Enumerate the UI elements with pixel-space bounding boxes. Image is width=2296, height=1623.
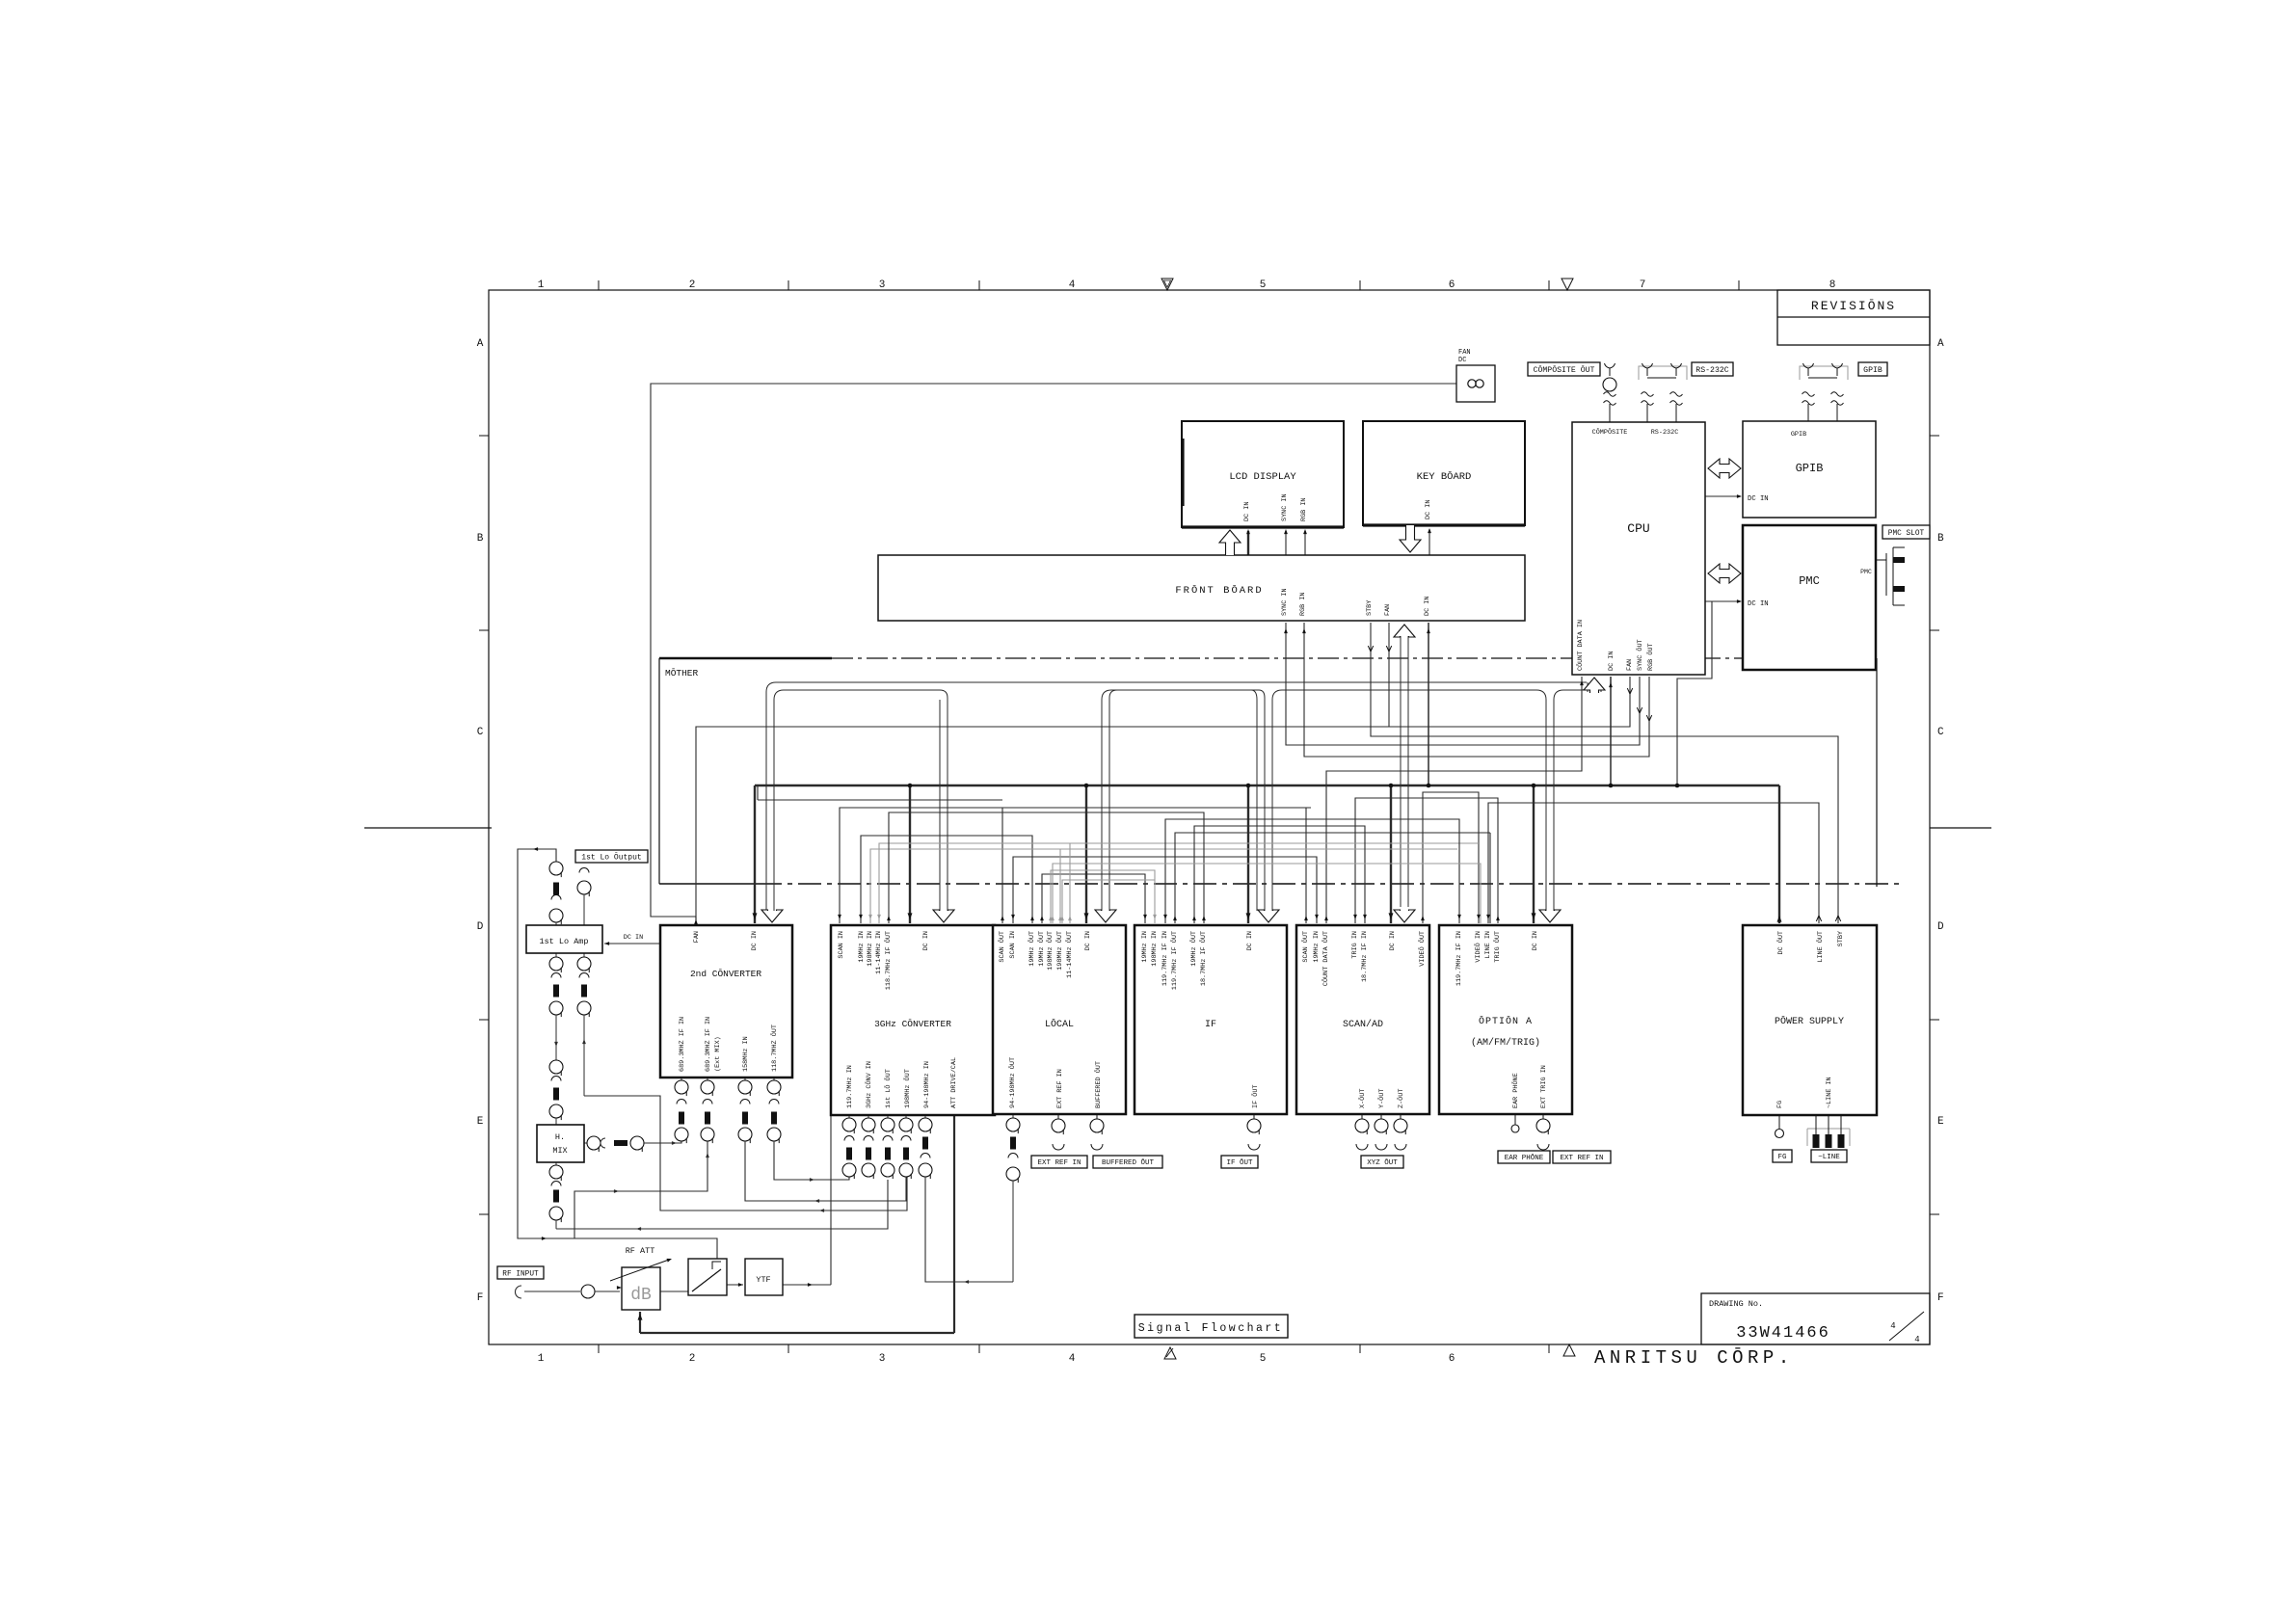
pipe branch OPTION A <box>1554 682 1590 911</box>
wire VIDEO net <box>1423 792 1479 923</box>
svg-text:119.7MHz IF ŌUT: 119.7MHz IF ŌUT <box>1170 931 1179 990</box>
POWER SUPPLY arrows <box>1777 916 1782 922</box>
svg-text:IF: IF <box>1205 1020 1216 1030</box>
pipe branch LOCAL <box>1102 690 1265 911</box>
svg-text:PMC: PMC <box>1860 569 1872 575</box>
wire DC branch <box>909 785 911 923</box>
svg-text:GPIB: GPIB <box>1863 366 1882 375</box>
svg-text:1st Lo Amp: 1st Lo Amp <box>539 937 588 946</box>
PMC slot connector <box>1876 559 1886 561</box>
svg-text:158MHz IN: 158MHz IN <box>742 1036 750 1072</box>
svg-text:11-14MHz IN: 11-14MHz IN <box>875 931 883 974</box>
svg-text:DC IN: DC IN <box>1246 931 1254 950</box>
svg-text:19MHz ŌUT: 19MHz ŌUT <box>1028 931 1036 967</box>
RF path arrows <box>617 1286 622 1290</box>
chain below amp right <box>583 953 585 958</box>
svg-text:1st LŌ ŌUT: 1st LŌ ŌUT <box>884 1069 893 1108</box>
svg-text:3GHz CŌNV IN: 3GHz CŌNV IN <box>865 1061 873 1108</box>
wire DC IN to 1st Lo Amp <box>604 943 660 945</box>
wire SCAN bus A <box>840 808 1311 923</box>
svg-text:RF ATT: RF ATT <box>626 1246 655 1256</box>
svg-text:CŌUNT DATA ŌUT: CŌUNT DATA ŌUT <box>1322 931 1330 986</box>
svg-text:118.7MHZ ŌUT: 118.7MHZ ŌUT <box>770 1024 779 1072</box>
svg-text:4: 4 <box>1890 1321 1895 1331</box>
3GHz CONVERTER board <box>831 925 995 1115</box>
wire DC branch <box>1247 785 1249 923</box>
chains under 2nd CONVERTER <box>681 1078 682 1080</box>
svg-text:VIDEŌ ŌUT: VIDEŌ ŌUT <box>1418 931 1427 967</box>
svg-text:EAR PHŌNE: EAR PHŌNE <box>1505 1154 1544 1162</box>
svg-text:FAN: FAN <box>1458 349 1471 357</box>
wire DC branch <box>1533 785 1535 923</box>
wire FAN net <box>696 677 1630 923</box>
bottom connector feet <box>1057 1114 1059 1119</box>
wire SCAN bus B <box>1013 857 1317 923</box>
wire IF inputs gray <box>1144 873 1146 875</box>
wire DC branch <box>1085 785 1087 923</box>
svg-text:FG: FG <box>1777 1154 1787 1161</box>
svg-text:198MHz ŌUT: 198MHz ŌUT <box>1046 931 1055 971</box>
wire deco stub <box>758 799 1002 801</box>
svg-text:F: F <box>1937 1292 1944 1304</box>
wire YTF riser <box>830 1115 832 1285</box>
RS-232C connector <box>1639 366 1687 380</box>
svg-text:CŌMPŌSITE ŌUT: CŌMPŌSITE ŌUT <box>1534 364 1595 375</box>
svg-text:2: 2 <box>689 279 696 291</box>
1st Lo Amp box <box>526 925 602 953</box>
svg-text:LINE IN: LINE IN <box>1484 931 1492 959</box>
CPU GPIB data arrows <box>1708 459 1741 478</box>
dB attenuator box <box>622 1267 660 1310</box>
svg-text:198MHz IN: 198MHz IN <box>1151 931 1159 967</box>
svg-text:5: 5 <box>1260 1353 1267 1365</box>
chain 1st Lo Output left <box>549 862 563 875</box>
svg-text:198MHz IN: 198MHz IN <box>867 931 874 967</box>
svg-text:SCAN ŌUT: SCAN ŌUT <box>1301 931 1310 963</box>
wire 19MHz A <box>861 836 1032 923</box>
svg-text:STBY: STBY <box>1366 600 1374 616</box>
OPTION A board <box>1439 925 1572 1114</box>
revision mark top 2 <box>1562 279 1573 290</box>
wire 118.7 out to 119.7 in <box>774 1141 849 1180</box>
pipe branch 3GHz outer <box>939 700 941 911</box>
wire DC branch FRONT BOARD <box>1428 623 1429 785</box>
FG stub <box>1778 1115 1780 1129</box>
svg-text:PMC SLOT: PMC SLOT <box>1888 530 1925 538</box>
wire 18.7 IF net <box>1194 826 1365 923</box>
chain below amp left <box>555 953 557 958</box>
svg-text:CPU: CPU <box>1627 521 1649 536</box>
1st Lo loop arrows <box>533 847 538 851</box>
LOCAL arrows <box>1001 916 1004 920</box>
svg-text:MŌTHER: MŌTHER <box>665 668 699 678</box>
pipe main horizontal <box>766 682 1587 911</box>
svg-text:B: B <box>477 533 484 545</box>
svg-text:Signal Flowchart: Signal Flowchart <box>1138 1322 1283 1335</box>
svg-text:BUFFERED ŌUT: BUFFERED ŌUT <box>1094 1061 1103 1108</box>
svg-text:LCD DISPLAY: LCD DISPLAY <box>1229 471 1296 483</box>
svg-text:REVISIŌNS: REVISIŌNS <box>1811 299 1896 313</box>
wire 198MHz B gray <box>1051 870 1155 923</box>
bottom labels <box>1031 1156 1087 1168</box>
SCAN AD arrows <box>1304 916 1308 920</box>
svg-text:FG: FG <box>1776 1101 1784 1108</box>
svg-text:LINE ŌUT: LINE ŌUT <box>1816 931 1825 963</box>
wires RS232 to CPU <box>1646 404 1648 422</box>
svg-text:DC IN: DC IN <box>1608 652 1615 671</box>
svg-text:~LINE: ~LINE <box>1818 1154 1840 1161</box>
svg-text:DC IN: DC IN <box>1084 931 1092 950</box>
wire 119.7 IF to OPTION A <box>1165 819 1459 923</box>
IF arrows <box>1143 915 1147 919</box>
svg-text:C: C <box>477 727 484 738</box>
LINE plug <box>1807 1129 1850 1146</box>
svg-text:CŌMPŌSITE: CŌMPŌSITE <box>1592 428 1628 437</box>
svg-text:6: 6 <box>1449 279 1455 291</box>
svg-text:5: 5 <box>1260 279 1267 291</box>
YTF box <box>745 1259 783 1295</box>
wire CPU composite <box>1609 404 1611 422</box>
wire CPU to GPIB DC IN <box>1705 495 1741 497</box>
wire gray pair 1 <box>1053 864 1481 923</box>
wires LCD KB FB <box>1247 531 1249 555</box>
svg-text:DC IN: DC IN <box>624 934 643 942</box>
wire FAN DC loop <box>651 384 1456 923</box>
chain LOCAL 94-198 out <box>1012 1114 1014 1118</box>
svg-text:A: A <box>1937 338 1944 350</box>
REVISIONS box <box>1777 290 1930 345</box>
chain below H MIX <box>555 1162 557 1165</box>
svg-text:VIDEŌ IN: VIDEŌ IN <box>1474 931 1482 963</box>
svg-text:FAN: FAN <box>693 931 701 943</box>
PMC board <box>1743 525 1876 670</box>
IF board <box>1135 925 1287 1114</box>
3GHz arrows <box>838 915 841 919</box>
2nd CONVERTER board <box>660 925 792 1078</box>
svg-text:18.7MHz IF IN: 18.7MHz IF IN <box>1361 931 1369 982</box>
svg-text:E: E <box>477 1116 484 1128</box>
svg-text:11-14MHz ŌUT: 11-14MHz ŌUT <box>1065 931 1074 978</box>
svg-text:198MHz ŌUT: 198MHz ŌUT <box>903 1069 912 1108</box>
svg-text:DC IN: DC IN <box>1243 502 1251 521</box>
svg-text:IF ŌUT: IF ŌUT <box>1226 1158 1253 1167</box>
svg-text:RS-232C: RS-232C <box>1651 429 1679 437</box>
svg-text:4: 4 <box>1069 279 1076 291</box>
chain H MIX output <box>584 1142 587 1144</box>
wire att drive thick <box>953 1115 955 1333</box>
svg-text:19MHz ŌUT: 19MHz ŌUT <box>1037 931 1046 967</box>
wire H MIX to 2nd conv <box>644 1139 681 1143</box>
switch symbol <box>692 1269 721 1291</box>
wire 198 out to 158 in <box>745 1141 906 1201</box>
FRONT BOARD bottom arrows <box>1284 628 1288 633</box>
svg-text:1: 1 <box>538 1353 545 1365</box>
svg-text:KEY BŌARD: KEY BŌARD <box>1417 470 1472 483</box>
svg-text:94-198MHz IN: 94-198MHz IN <box>923 1061 931 1108</box>
pipe branch IF <box>1272 690 1546 911</box>
sheet number 4/4 <box>1889 1312 1924 1341</box>
wire 11-14MHz gray <box>879 843 1479 923</box>
revision mark bottom 1 <box>1164 1347 1176 1359</box>
svg-text:EXT TRIG IN: EXT TRIG IN <box>1540 1065 1548 1108</box>
H MIX box <box>537 1125 584 1162</box>
chain 1st Lo Output jack <box>579 868 589 873</box>
svg-text:RGB IN: RGB IN <box>1300 498 1308 521</box>
wire CPU to PMC DC IN <box>1705 600 1741 602</box>
OPTION A arrows <box>1457 915 1461 919</box>
border frame <box>489 290 1930 1344</box>
svg-text:19MHz IN: 19MHz IN <box>858 931 866 963</box>
svg-text:X-ŌUT: X-ŌUT <box>1358 1089 1367 1108</box>
EXT TRIG stub <box>1542 1114 1544 1119</box>
Signal Flowchart label <box>1135 1315 1288 1338</box>
CPU bottom arrows <box>1580 680 1584 685</box>
svg-text:F: F <box>477 1292 484 1304</box>
svg-text:SYNC IN: SYNC IN <box>1281 588 1289 616</box>
svg-text:~LINE IN: ~LINE IN <box>1826 1077 1833 1108</box>
arrows LCD KB <box>1219 530 1241 555</box>
svg-text:ANRITSU CŌRP.: ANRITSU CŌRP. <box>1594 1347 1794 1369</box>
pipe FRONT BOARD to SCAN AD <box>1400 636 1402 907</box>
svg-text:TRIG IN: TRIG IN <box>1351 931 1359 959</box>
wire gray pair 2 <box>1062 880 1155 923</box>
GPIB board <box>1743 421 1876 518</box>
svg-text:EAR PHŌNE: EAR PHŌNE <box>1511 1073 1520 1108</box>
wire switch to YTF <box>727 1284 743 1286</box>
svg-text:Z-ŌUT: Z-ŌUT <box>1397 1089 1405 1108</box>
svg-text:2: 2 <box>689 1353 696 1365</box>
chains under 3GHz <box>848 1115 850 1118</box>
svg-text:GPIB: GPIB <box>1796 462 1824 475</box>
svg-text:DC ŌUT: DC ŌUT <box>1776 931 1785 954</box>
svg-text:Y-ŌUT: Y-ŌUT <box>1377 1089 1386 1108</box>
SCAN AD board <box>1296 925 1429 1114</box>
svg-text:SCAN IN: SCAN IN <box>1009 931 1017 959</box>
svg-text:2nd CŌNVERTER: 2nd CŌNVERTER <box>690 969 761 979</box>
wire 19MHz B <box>1042 874 1145 923</box>
switch box <box>688 1259 727 1295</box>
svg-text:3: 3 <box>879 1353 886 1365</box>
2nd CONVERTER arrows <box>694 919 698 924</box>
svg-text:TRIG ŌUT: TRIG ŌUT <box>1493 931 1502 963</box>
RF input connector <box>516 1286 522 1298</box>
svg-text:EXT REF IN: EXT REF IN <box>1560 1155 1603 1162</box>
svg-text:EXT REF IN: EXT REF IN <box>1037 1159 1081 1167</box>
svg-text:dB: dB <box>630 1286 652 1305</box>
svg-text:(Ext MIX): (Ext MIX) <box>714 1036 722 1072</box>
drawing number box <box>1701 1293 1930 1344</box>
svg-text:ATT DRIVE/CAL: ATT DRIVE/CAL <box>950 1057 958 1108</box>
svg-text:8: 8 <box>1829 279 1836 291</box>
svg-text:YTF: YTF <box>756 1275 770 1285</box>
svg-text:SCAN/AD: SCAN/AD <box>1343 1019 1383 1030</box>
fold center marks <box>364 827 492 829</box>
FAN DC box <box>1456 365 1495 402</box>
COMPOSITE OUT connector <box>1528 362 1600 376</box>
LOCAL board <box>993 925 1126 1114</box>
svg-text:DC IN: DC IN <box>1425 500 1432 519</box>
svg-text:PMC: PMC <box>1799 574 1820 588</box>
svg-text:DC IN: DC IN <box>1748 495 1769 503</box>
svg-text:DC IN: DC IN <box>1748 600 1769 608</box>
wire DC OUT main bus thick <box>1778 785 1780 923</box>
svg-text:RS-232C: RS-232C <box>1695 366 1728 375</box>
wire TRIG net <box>1355 798 1498 923</box>
svg-text:689.3MHZ IF IN: 689.3MHZ IF IN <box>679 1017 686 1072</box>
svg-text:CŌUNT DATA IN: CŌUNT DATA IN <box>1576 620 1585 671</box>
RF INPUT label <box>497 1266 544 1279</box>
wire RGB net <box>1304 623 1649 757</box>
wire SYNC net <box>1286 623 1640 745</box>
wires GPIB conn to board <box>1807 404 1809 421</box>
svg-text:4: 4 <box>1914 1335 1919 1344</box>
svg-text:D: D <box>477 921 484 933</box>
wire 1st Lo loop top <box>518 849 717 1259</box>
svg-text:DC IN: DC IN <box>1424 597 1431 616</box>
wire 1st LO return <box>584 1096 907 1211</box>
svg-text:STBY: STBY <box>1837 931 1845 946</box>
svg-text:XYZ ŌUT: XYZ ŌUT <box>1367 1158 1398 1167</box>
svg-text:SYNC IN: SYNC IN <box>1281 493 1289 521</box>
svg-text:119.7MHz IF IN: 119.7MHz IF IN <box>1161 931 1169 986</box>
svg-text:DC IN: DC IN <box>922 931 930 950</box>
svg-text:689.3MHZ IF IN: 689.3MHZ IF IN <box>705 1017 712 1072</box>
wire DC branch <box>1390 785 1392 923</box>
svg-text:RGB ŌUT: RGB ŌUT <box>1646 643 1655 671</box>
svg-text:MIX: MIX <box>552 1146 567 1156</box>
svg-text:3: 3 <box>879 279 886 291</box>
wire H MIX bottom net <box>556 1180 888 1229</box>
svg-text:DC IN: DC IN <box>1389 931 1397 950</box>
svg-text:EXT REF IN: EXT REF IN <box>1056 1069 1064 1108</box>
svg-text:B: B <box>1937 533 1944 545</box>
CPU board <box>1572 422 1705 675</box>
svg-text:H.: H. <box>555 1132 565 1142</box>
LCD DISPLAY board <box>1182 421 1344 527</box>
svg-text:DRAWING No.: DRAWING No. <box>1709 1299 1763 1309</box>
KEY BOARD board <box>1363 421 1525 525</box>
svg-text:19MHz IN: 19MHz IN <box>1313 931 1321 963</box>
svg-text:C: C <box>1937 727 1944 738</box>
svg-text:6: 6 <box>1449 1353 1455 1365</box>
svg-text:SCAN ŌUT: SCAN ŌUT <box>998 931 1006 963</box>
svg-text:7: 7 <box>1640 279 1646 291</box>
svg-text:DC: DC <box>1458 357 1466 364</box>
revision mark bottom 2 <box>1563 1344 1575 1356</box>
svg-text:FAN: FAN <box>1384 604 1392 616</box>
svg-text:4: 4 <box>1069 1353 1076 1365</box>
wire LINE OUT net <box>1488 803 1819 923</box>
svg-text:18.7MHz IF ŌUT: 18.7MHz IF ŌUT <box>1199 931 1208 986</box>
svg-text:PŌWER SUPPLY: PŌWER SUPPLY <box>1775 1015 1844 1027</box>
svg-text:1: 1 <box>538 279 545 291</box>
svg-text:D: D <box>1937 921 1944 933</box>
svg-text:(AM/FM/TRIG): (AM/FM/TRIG) <box>1471 1037 1540 1049</box>
svg-text:FAN: FAN <box>1626 659 1634 671</box>
svg-text:A: A <box>477 338 484 350</box>
wire 118.7 IF OUT net <box>889 812 1204 923</box>
svg-text:198MHz ŌUT: 198MHz ŌUT <box>1055 931 1064 971</box>
svg-text:SCAN IN: SCAN IN <box>838 931 845 959</box>
svg-text:DC IN: DC IN <box>1532 931 1539 950</box>
chain 94-198 in <box>924 1115 926 1118</box>
EAR PHONE stub <box>1514 1114 1516 1125</box>
wire STBY net <box>1371 623 1838 923</box>
svg-text:BUFFERED ŌUT: BUFFERED ŌUT <box>1102 1158 1155 1167</box>
svg-text:E: E <box>1937 1116 1944 1128</box>
svg-text:RF INPUT: RF INPUT <box>502 1270 539 1278</box>
svg-text:DC IN: DC IN <box>751 931 759 950</box>
svg-text:19MHz ŌUT: 19MHz ŌUT <box>1189 931 1198 967</box>
wire 94-198 link <box>925 1177 1013 1282</box>
svg-text:SYNC ŌUT: SYNC ŌUT <box>1636 639 1644 671</box>
wire DC branch CPU <box>1610 677 1612 785</box>
1st Lo Output label <box>575 850 648 863</box>
svg-text:119.7MHz IN: 119.7MHz IN <box>846 1065 854 1108</box>
svg-text:IF ŌUT: IF ŌUT <box>1251 1085 1260 1108</box>
wire 198MHz A gray <box>870 849 1457 923</box>
svg-text:33W41466: 33W41466 <box>1736 1324 1830 1343</box>
wire dB to switch <box>660 1290 688 1292</box>
svg-text:RGB IN: RGB IN <box>1299 593 1307 616</box>
svg-text:1st Lo Ōutput: 1st Lo Ōutput <box>581 853 641 862</box>
svg-text:3GHz CŌNVERTER: 3GHz CŌNVERTER <box>874 1019 951 1029</box>
svg-text:ŌPTIŌN A: ŌPTIŌN A <box>1479 1015 1533 1027</box>
FRONT BOARD board <box>878 555 1525 621</box>
svg-text:94-198MHz ŌUT: 94-198MHz ŌUT <box>1008 1057 1017 1108</box>
svg-text:GPIB: GPIB <box>1791 431 1806 439</box>
GPIB connector <box>1800 366 1848 380</box>
revision mark top 1 <box>1161 279 1173 290</box>
wire ext mix net <box>574 1141 707 1238</box>
svg-text:FRŌNT BŌARD: FRŌNT BŌARD <box>1175 584 1263 597</box>
PMC SLOT label <box>1882 525 1930 539</box>
svg-text:19MHz IN: 19MHz IN <box>1141 931 1149 963</box>
wire DC riser GPIB PMC <box>1677 601 1712 785</box>
wire COUNT DATA net <box>1326 677 1582 923</box>
MOTHER board outline <box>659 657 832 660</box>
pipe up to CPU <box>1587 682 1589 692</box>
svg-text:119.7MHz IF IN: 119.7MHz IF IN <box>1455 931 1463 986</box>
svg-text:LŌCAL: LŌCAL <box>1045 1018 1074 1030</box>
svg-text:118.7MHz IF ŌUT: 118.7MHz IF ŌUT <box>884 931 893 990</box>
wire YTF out <box>783 1284 831 1286</box>
POWER SUPPLY board <box>1743 925 1877 1115</box>
